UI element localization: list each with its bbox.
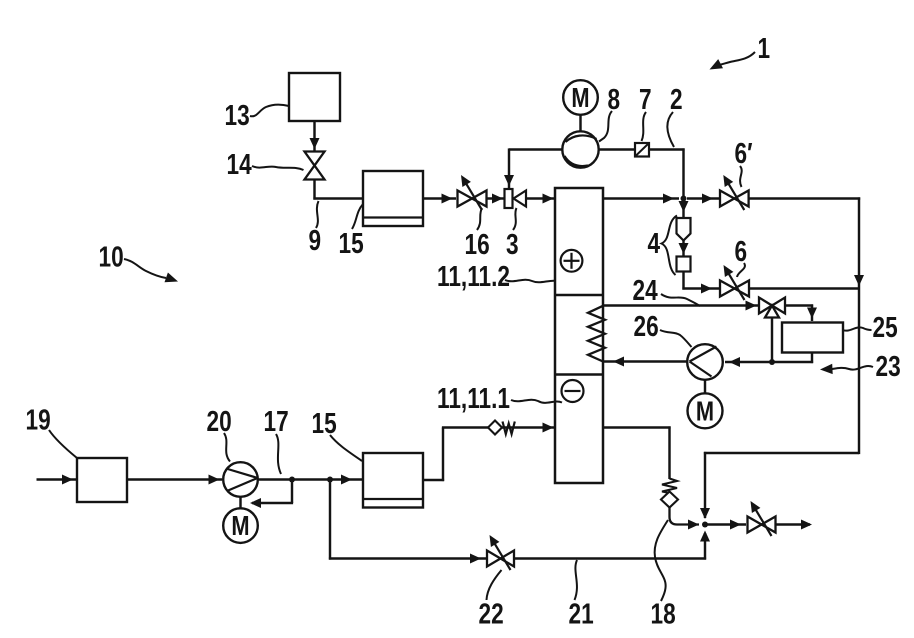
wire 17 compressor 20 to humidifier 15 [258,478,362,480]
svg-text:17: 17 [264,404,289,437]
svg-text:24: 24 [633,273,659,306]
pressure relief valve 18 spring [662,479,677,494]
fuel cell stack 11 [555,188,603,483]
wire separator to drain valve 6 [682,272,684,290]
motor M8 [563,80,598,115]
right bypass line (down) [858,197,860,454]
wire valve 6' to right bypass line [749,197,861,199]
svg-text:6: 6 [735,234,748,267]
motor M20 [223,508,258,543]
compressor 20 [223,462,258,497]
drain valve 6 [720,281,735,297]
compressor 8 [562,131,598,167]
wire compressor 8 to check valve 7 [599,148,635,150]
svg-text:23: 23 [876,349,901,382]
svg-text:M: M [231,511,249,542]
svg-text:8: 8 [608,82,621,115]
svg-text:M: M [696,396,714,427]
wire 3-way valve to radiator 25 [785,304,813,306]
node J2 (recirculation tap) [289,477,295,483]
svg-text:10: 10 [99,240,124,273]
svg-text:26: 26 [634,309,659,342]
wire right bypass to junction J4 [704,452,859,454]
svg-text:9: 9 [309,223,322,256]
control valve 16 [458,191,473,207]
svg-text:6′: 6′ [735,136,753,169]
tank 13 [289,73,340,121]
check valve 7 [635,143,649,157]
wire relief valve 18 to exhaust junction [670,508,700,525]
svg-text:21: 21 [569,597,594,630]
wire tank 13 to valve 14 [313,121,315,151]
shut-off valve 14 (vertical) [305,152,325,166]
svg-text:11,11.2: 11,11.2 [437,259,510,292]
anode minus symbol [562,380,584,402]
exhaust throttle valve (outlet) [748,517,762,533]
svg-text:7: 7 [639,82,652,115]
svg-text:13: 13 [225,98,250,131]
wire injector 3 to stack (cathode inlet) [526,197,554,199]
radiator 25 [782,323,843,353]
recirculation wire around compressor 20 [291,480,293,504]
wire separator vessel to drain box [682,241,684,256]
injector 3 [505,189,513,208]
wire valve 22 to junction J4 [514,557,706,559]
svg-text:4: 4 [648,226,661,259]
wire pump 26 to stack coolant inlet [604,360,688,362]
wire valve 16 to injector 3 [487,197,505,199]
wire coolant stack outlet to 3-way valve [603,304,758,306]
motor shaft M26 [704,380,706,394]
svg-text:M: M [571,82,589,113]
motor shaft M8 [579,115,581,132]
air filter 19 [77,458,127,502]
check valve spring W [503,422,515,435]
water separator 4 (drain box) [677,257,691,272]
wire filter 19 to compressor 20 [127,478,222,480]
wire coolant junction to pump 26 [725,361,772,363]
bypass valve 22 [487,551,501,567]
svg-text:15: 15 [312,406,337,439]
wire junction J4 to exhaust valve [705,523,746,525]
water separator 4 (upper vessel) [677,218,691,241]
check valve (diamond) on anode inlet [488,421,502,435]
wire humidifier 15 to stack anode inlet [423,479,444,481]
exhaust valve 6' [720,191,734,207]
wire node J1 to valve 6' [687,197,719,199]
svg-text:19: 19 [26,403,51,436]
svg-text:14: 14 [227,147,253,180]
motor M26 [688,393,723,428]
wire node J1 down to separator 4 [682,199,684,219]
coolant junction node [769,359,775,365]
wire stack cathode outlet to node J1 [603,197,679,199]
svg-text:25: 25 [873,310,898,343]
wire radiator 25 to coolant junction [811,353,813,364]
svg-text:11,11.1: 11,11.1 [437,381,510,414]
svg-text:20: 20 [207,404,232,437]
node J1 [681,196,687,202]
wire bypass line 21 [329,480,331,560]
svg-text:2: 2 [670,82,683,115]
svg-text:18: 18 [651,597,676,630]
pressure relief valve 18 diamond [661,492,678,508]
svg-text:16: 16 [465,227,490,260]
wire 2 [649,148,685,150]
wire stack anode outlet to relief valve 18 [603,426,671,428]
exhaust junction node J4 [702,522,708,528]
humidifier 15 (top) [363,171,423,226]
coolant pump 26 [687,344,723,380]
cathode plus symbol [561,250,583,272]
motor shaft M20 [239,497,241,509]
wire humidifier 15 to valve 16 [423,197,456,199]
svg-text:22: 22 [479,597,504,630]
svg-text:1: 1 [758,31,771,64]
heat exchanger coil (zigzag) [588,306,605,362]
wire 3-way valve bottom branch [771,318,773,363]
wire 9 [313,179,315,200]
three-way valve (coolant) [759,298,772,314]
humidifier 15 (bottom) [363,453,423,508]
svg-text:3: 3 [506,227,519,260]
wire compressor branch down to injector [508,148,510,188]
node J3 (bypass tap) [327,477,333,483]
svg-text:15: 15 [339,226,364,259]
exhaust outlet wire with arrow [776,523,811,525]
air inlet wire with arrow [37,478,77,480]
wire valve 6 to right bypass line [749,287,859,289]
